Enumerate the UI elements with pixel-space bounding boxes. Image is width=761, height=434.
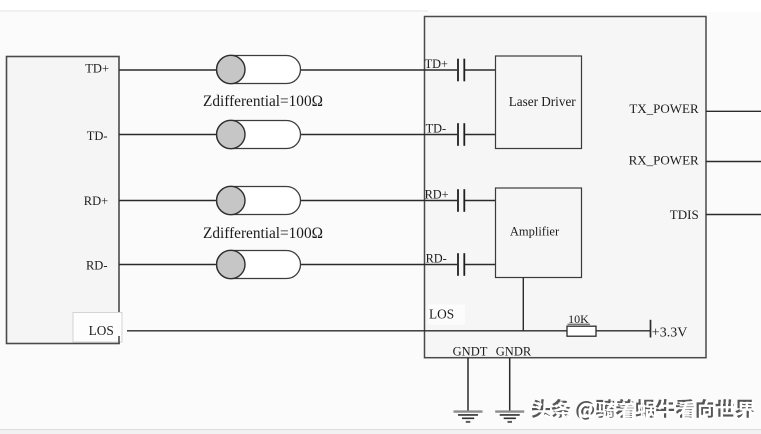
coupling capacitor C3 bbox=[458, 189, 464, 212]
ferrite bead L2 (TD-) bbox=[217, 120, 301, 148]
+3.3V terminal tick bbox=[650, 320, 652, 338]
svg-text:RD+: RD+ bbox=[84, 194, 108, 208]
coupling capacitor C4 bbox=[458, 253, 464, 276]
ground symbol GNDR bbox=[495, 412, 524, 422]
ferrite bead L4 (RD-) bbox=[217, 250, 301, 278]
wire GNDR to ground bbox=[509, 358, 511, 411]
svg-text:TD-: TD- bbox=[87, 129, 108, 143]
laser driver block U1 bbox=[496, 56, 582, 149]
svg-text:LOS: LOS bbox=[429, 307, 454, 322]
svg-text:+3.3V: +3.3V bbox=[652, 325, 688, 340]
ferrite bead L3 (RD+) bbox=[217, 186, 301, 214]
svg-text:TD+: TD+ bbox=[85, 62, 109, 76]
svg-text:TD-: TD- bbox=[426, 122, 447, 136]
svg-text:Zdifferential=100Ω: Zdifferential=100Ω bbox=[203, 225, 323, 242]
ferrite bead L1 (TD+) bbox=[217, 55, 301, 83]
module box (right, large) bbox=[425, 17, 707, 358]
svg-text:RD-: RD- bbox=[426, 251, 447, 265]
svg-text:LOS: LOS bbox=[89, 323, 114, 338]
svg-text:TX_POWER: TX_POWER bbox=[629, 101, 699, 116]
wire TDIS bbox=[706, 214, 761, 216]
resistor R1 10K bbox=[567, 326, 596, 336]
wire TD- row bbox=[119, 134, 496, 136]
wire TX_POWER bbox=[706, 110, 761, 112]
svg-text:TDIS: TDIS bbox=[670, 207, 699, 222]
ground symbol GNDT bbox=[454, 412, 483, 422]
svg-text:Zdifferential=100Ω: Zdifferential=100Ω bbox=[203, 93, 323, 110]
svg-text:GNDT: GNDT bbox=[453, 345, 488, 359]
wire GNDT to ground bbox=[467, 358, 469, 411]
svg-text:TD+: TD+ bbox=[425, 57, 448, 71]
wire RD+ row bbox=[119, 200, 496, 202]
svg-text:GNDR: GNDR bbox=[496, 345, 532, 359]
svg-text:Amplifier: Amplifier bbox=[510, 225, 560, 239]
wire TD+ row bbox=[119, 69, 496, 71]
module label LOS bbox=[428, 305, 465, 325]
wire amplifier output to LOS net bbox=[522, 278, 524, 331]
coupling capacitor C1 bbox=[458, 59, 464, 82]
svg-text:RX_POWER: RX_POWER bbox=[629, 152, 699, 167]
svg-text:RD-: RD- bbox=[86, 259, 108, 273]
wire resistor to +3.3V bbox=[596, 330, 651, 332]
connector box (left) bbox=[7, 57, 120, 344]
wire RX_POWER bbox=[706, 161, 761, 163]
LOS label patch on connector bbox=[73, 313, 122, 343]
amplifier block U2 bbox=[496, 188, 582, 278]
wire LOS row bbox=[127, 330, 567, 332]
svg-text:RD+: RD+ bbox=[425, 188, 449, 202]
svg-text:Laser Driver: Laser Driver bbox=[509, 94, 577, 109]
coupling capacitor C2 bbox=[458, 123, 464, 146]
wire RD- row bbox=[119, 264, 496, 266]
watermark (Toutiao) bbox=[532, 399, 756, 422]
